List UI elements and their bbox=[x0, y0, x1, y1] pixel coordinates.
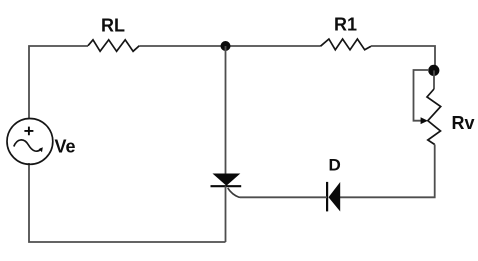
wire: bottom rail from SCR cathode to source Ve bottom terminal bbox=[29, 163, 226, 242]
thyristor SCR (triangle, anode top) bbox=[213, 174, 241, 186]
wire: R1 to top-right corner, down to node B bbox=[371, 46, 435, 70]
node B (junction dot, Rv top / wiper tie) bbox=[428, 65, 439, 76]
thyristor SCR cathode bar bbox=[211, 185, 242, 187]
potentiometer Rv (vertical resistor body) bbox=[427, 89, 441, 145]
wire: RL to node A bbox=[139, 45, 225, 47]
wire: node A to R1 bbox=[226, 45, 321, 47]
potentiometer Rv wiper arrow bbox=[421, 117, 428, 124]
wire: diode D cathode to SCR gate bbox=[240, 196, 327, 198]
svg-text:R1: R1 bbox=[334, 15, 357, 35]
wire: SCR cathode down to bottom rail bbox=[225, 186, 227, 242]
voltage source Ve sine wave bbox=[14, 140, 42, 151]
wire: Rv bottom down to lower-right corner then left to diode D cathode bbox=[340, 145, 435, 198]
wire: left vertical from top corner down to source Ve top terminal bbox=[29, 46, 88, 118]
node A (junction dot, top of SCR branch) bbox=[221, 41, 231, 51]
svg-text:Ve: Ve bbox=[55, 137, 76, 157]
voltage source Ve sine wave arrow tip bbox=[39, 147, 43, 152]
svg-text:D: D bbox=[329, 156, 341, 175]
wire: node B down to Rv top bbox=[433, 70, 435, 89]
resistor R1 bbox=[321, 39, 372, 50]
svg-text:RL: RL bbox=[101, 16, 125, 36]
diode D cathode bar bbox=[326, 182, 328, 212]
diode D (anode right, cathode left) bbox=[329, 182, 341, 212]
wire: wiper tie from node B left and down to wiper arm bbox=[414, 70, 430, 121]
wire: SCR gate lead (curved) bbox=[228, 188, 240, 197]
voltage source Ve (AC source circle) bbox=[7, 118, 53, 164]
svg-text:Rv: Rv bbox=[452, 113, 475, 133]
wire: node A down to SCR anode bbox=[225, 46, 227, 174]
voltage source Ve polarity plus sign bbox=[24, 127, 33, 136]
resistor RL bbox=[88, 40, 139, 52]
